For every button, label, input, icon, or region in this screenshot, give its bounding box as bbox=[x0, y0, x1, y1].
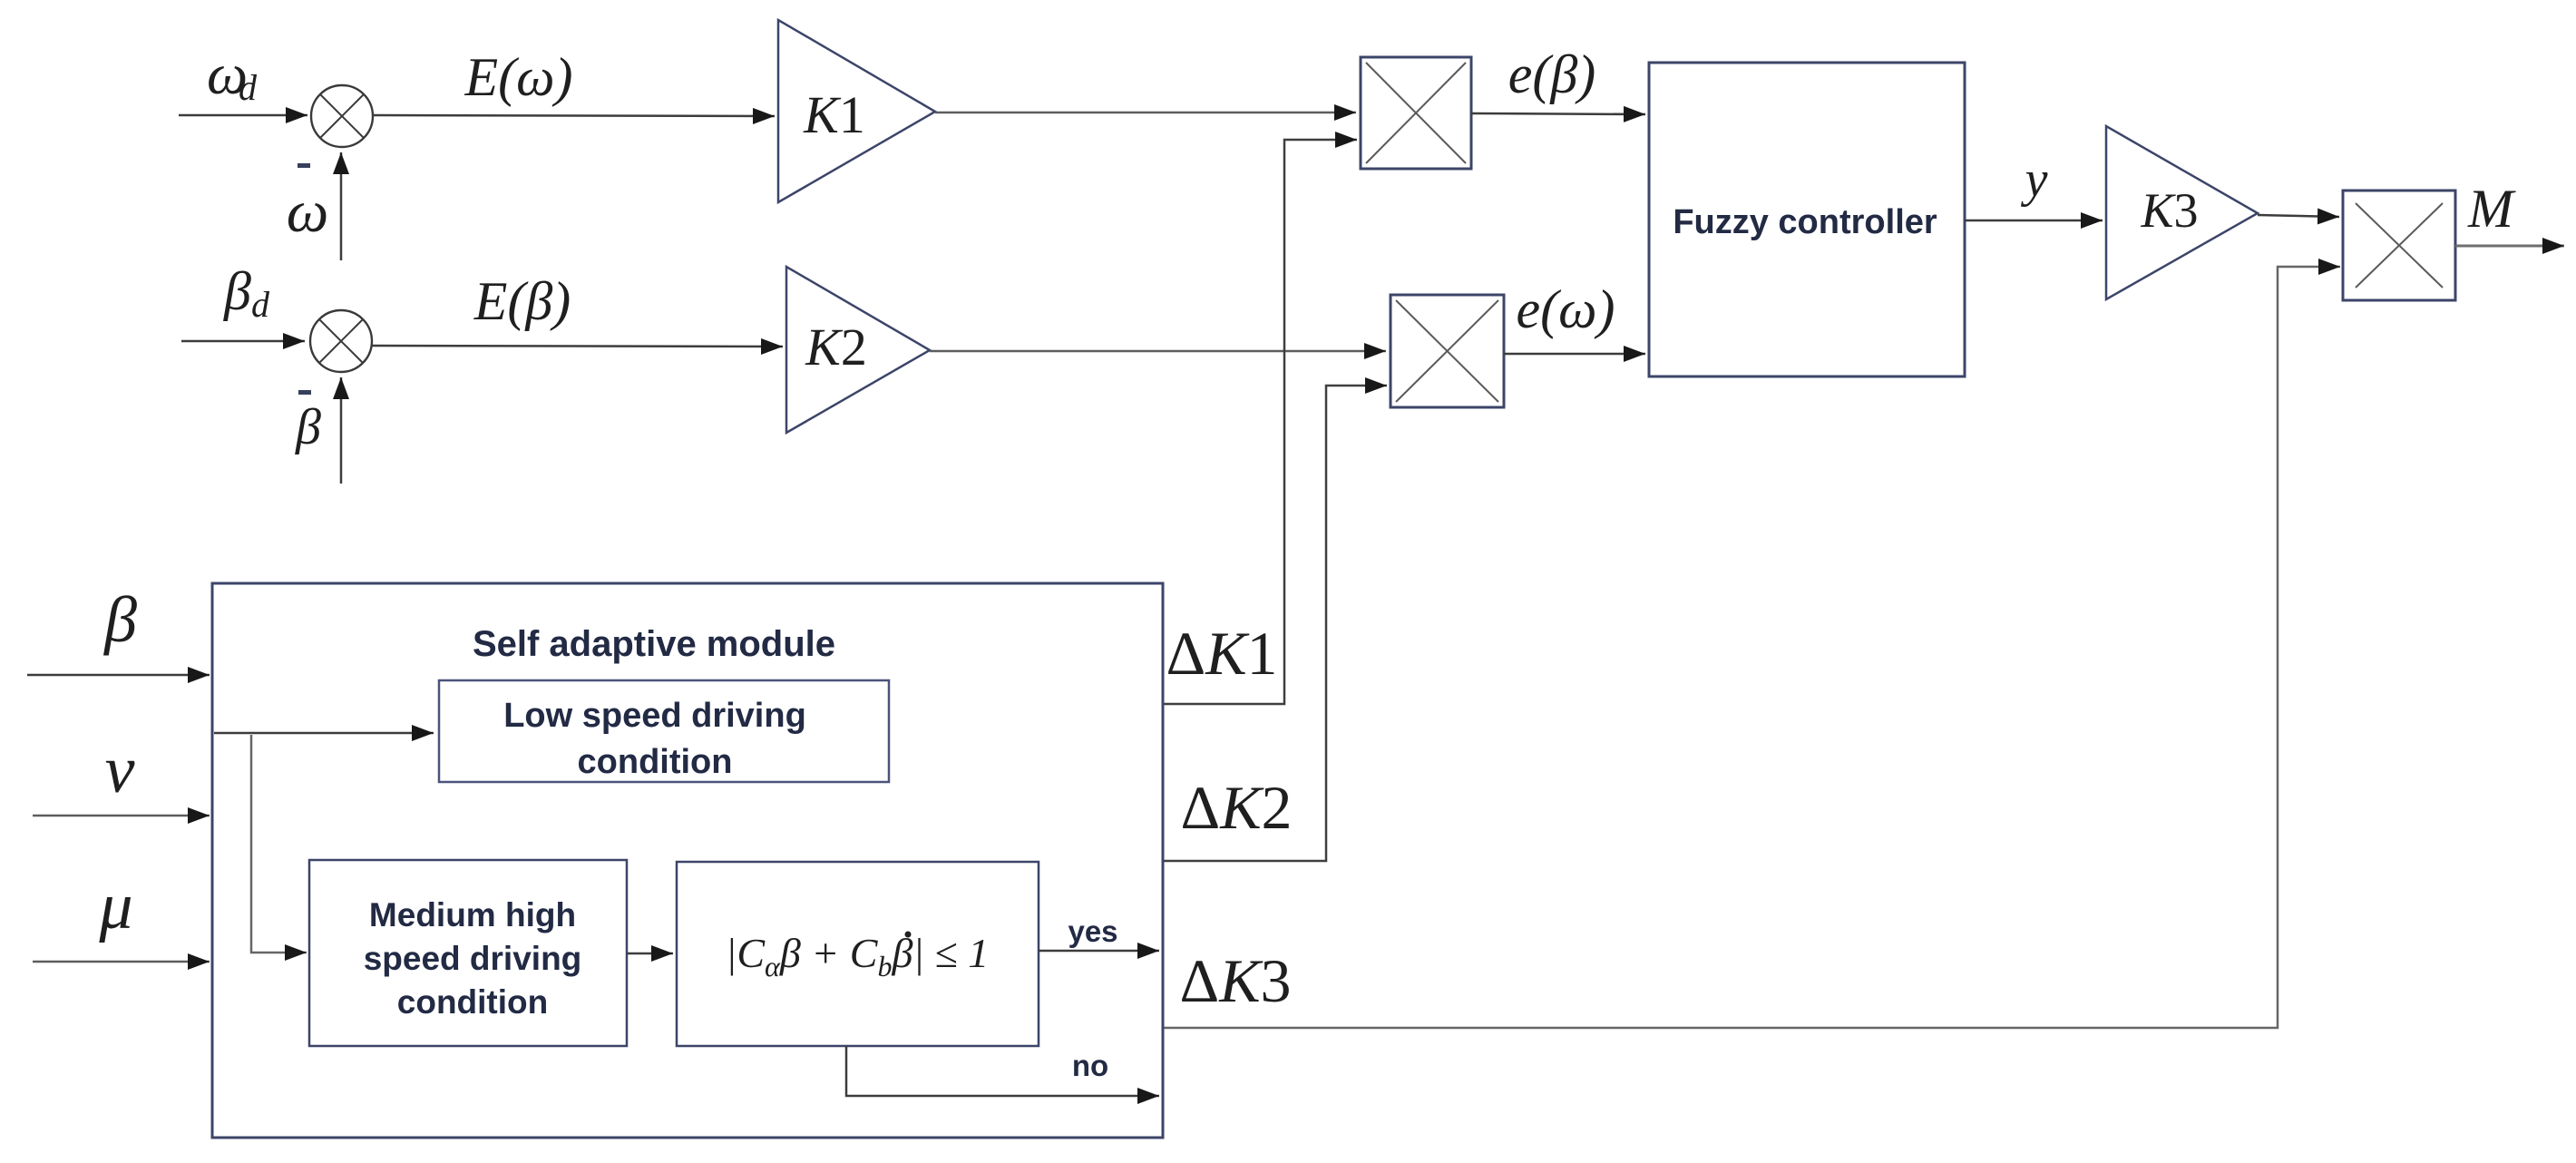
svg-text:Self adaptive module: Self adaptive module bbox=[473, 624, 835, 664]
svg-text:speed driving: speed driving bbox=[364, 940, 582, 977]
wire beta_d input bbox=[181, 340, 305, 343]
wire distribution to low speed box bbox=[214, 732, 434, 735]
node omega_d label bbox=[207, 42, 258, 108]
wire X1 to fuzzy controller bbox=[1471, 113, 1645, 114]
low speed driving condition box bbox=[439, 680, 889, 782]
wire X2 to fuzzy controller bbox=[1504, 353, 1645, 356]
wire mu input bbox=[33, 961, 210, 963]
wire no to module edge bbox=[846, 1046, 1159, 1096]
summing junction S2 bbox=[310, 310, 372, 372]
svg-text:Fuzzy controller: Fuzzy controller bbox=[1673, 203, 1937, 241]
svg-text:v: v bbox=[105, 733, 135, 807]
summing junction S1 bbox=[311, 85, 373, 147]
wire K2 to multiplier X2 bbox=[930, 350, 1386, 353]
wire v input bbox=[33, 815, 210, 817]
gain K3 bbox=[2106, 126, 2258, 299]
svg-text:Medium high: Medium high bbox=[369, 896, 576, 933]
svg-text:e(ω): e(ω) bbox=[1517, 279, 1615, 339]
svg-text:condition: condition bbox=[578, 743, 733, 781]
wire branch to medium box bbox=[251, 735, 307, 953]
wire yes to module edge bbox=[1039, 950, 1159, 953]
svg-text:K2: K2 bbox=[805, 318, 867, 376]
wire K1 to multiplier X1 bbox=[935, 112, 1356, 114]
multiplier X2 bbox=[1390, 295, 1504, 407]
wire beta feedback up into S2 bbox=[340, 377, 343, 484]
svg-text:ω: ω bbox=[287, 179, 329, 245]
wire fuzzy controller to K3 bbox=[1965, 220, 2103, 222]
svg-text:K1: K1 bbox=[803, 85, 865, 144]
svg-text:ΔK2: ΔK2 bbox=[1180, 773, 1292, 842]
svg-text:condition: condition bbox=[397, 983, 548, 1021]
wire K3 to multiplier X3 bbox=[2258, 215, 2339, 217]
svg-text:Low speed driving: Low speed driving bbox=[503, 697, 806, 735]
wire S2 to K2 bbox=[372, 346, 783, 347]
wire S1 to K1 bbox=[373, 115, 775, 116]
svg-text:e(β): e(β) bbox=[1508, 44, 1595, 104]
wire deltaK3 from module to X3 bbox=[1164, 267, 2340, 1028]
svg-text:yes: yes bbox=[1068, 914, 1117, 948]
svg-text:β: β bbox=[102, 583, 137, 656]
svg-text:y: y bbox=[2021, 151, 2048, 208]
gain K2 bbox=[786, 267, 930, 433]
svg-text:K3: K3 bbox=[2140, 183, 2198, 238]
wire medium box to condition box bbox=[627, 953, 673, 955]
svg-text:no: no bbox=[1072, 1049, 1108, 1082]
wire deltaK1 from module to X1 bbox=[1164, 140, 1357, 704]
svg-text:β: β bbox=[295, 399, 321, 455]
svg-text:d: d bbox=[251, 284, 270, 325]
medium high speed driving condition box bbox=[309, 860, 627, 1046]
svg-text:β: β bbox=[223, 261, 251, 321]
wire omega feedback up into S1 bbox=[340, 152, 343, 260]
svg-text:E(β): E(β) bbox=[473, 271, 571, 331]
wire omega_d input bbox=[179, 114, 307, 117]
svg-text:E(ω): E(ω) bbox=[464, 47, 573, 107]
fuzzy controller U1 bbox=[1649, 63, 1965, 376]
svg-text:M: M bbox=[2467, 179, 2516, 239]
svg-text:μ: μ bbox=[98, 869, 132, 943]
wire deltaK2 from module to X2 bbox=[1164, 386, 1387, 861]
svg-text:d: d bbox=[239, 67, 258, 108]
condition box |Ca b + Cb b'| <= 1 bbox=[677, 862, 1039, 1046]
wire beta input bbox=[27, 674, 210, 677]
minus sign at S1 bbox=[298, 163, 310, 168]
minus sign at S2 bbox=[298, 390, 311, 395]
self adaptive module box bbox=[212, 583, 1163, 1138]
svg-text:ΔK1: ΔK1 bbox=[1166, 619, 1277, 688]
node beta_d label bbox=[223, 261, 270, 325]
svg-text:ΔK3: ΔK3 bbox=[1179, 946, 1291, 1015]
multiplier X3 bbox=[2343, 191, 2455, 300]
wire X3 to M output bbox=[2455, 245, 2564, 248]
gain K1 bbox=[778, 20, 935, 202]
multiplier X1 bbox=[1361, 57, 1471, 169]
